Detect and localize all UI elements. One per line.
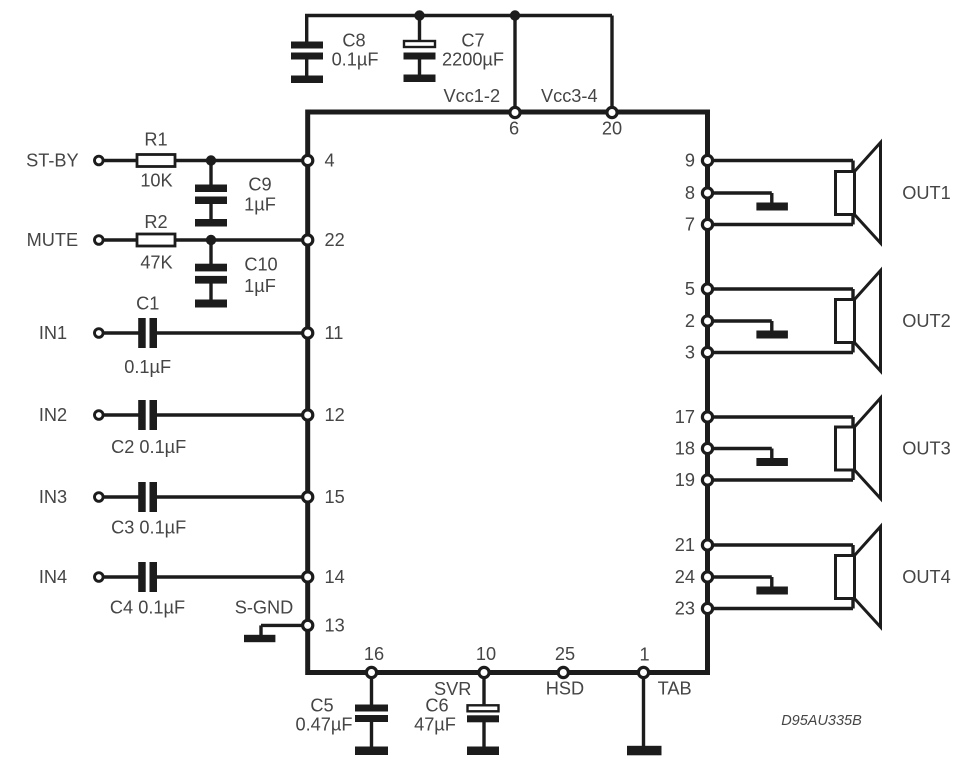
terminal IN4 — [95, 573, 104, 582]
ground (C7) — [404, 75, 436, 83]
capacitor C9 — [209, 161, 212, 186]
resistor R2 — [137, 234, 175, 246]
wire pin 17 to speaker OUT3 — [711, 415, 853, 418]
speaker OUT2 driver — [836, 300, 855, 343]
pin 8 (OUT1 gnd) — [702, 188, 712, 198]
pin 17 (OUT3+) — [702, 412, 712, 422]
wire pin 8 to ground — [711, 191, 772, 194]
ground (OUT3 return) — [756, 458, 788, 466]
wire C8 drop — [305, 16, 308, 43]
junction at Vcc1-2 branch — [510, 10, 520, 20]
wire pin 7 to speaker OUT1 — [711, 223, 853, 226]
capacitor C2 — [138, 400, 146, 430]
svg-text:IN4: IN4 — [39, 567, 67, 587]
svg-text:19: 19 — [675, 470, 695, 490]
svg-text:22: 22 — [325, 230, 345, 250]
svg-text:18: 18 — [675, 439, 695, 459]
svg-text:IN2: IN2 — [39, 405, 67, 425]
pin 21 (OUT4+) — [702, 540, 712, 550]
pin 15 (IN3) — [303, 492, 313, 502]
svg-text:R2: R2 — [144, 212, 167, 232]
svg-text:12: 12 — [325, 405, 345, 425]
ground (S-GND) — [244, 635, 275, 642]
svg-text:15: 15 — [325, 487, 345, 507]
pin 25 (HSD) — [558, 667, 568, 677]
pin 11 (IN1) — [303, 328, 313, 338]
pin 6 (Vcc1-2) — [510, 107, 520, 117]
speaker OUT3 horn — [854, 398, 881, 499]
pin 19 (OUT3-) — [702, 475, 712, 485]
wire pin 23 to speaker OUT4 — [711, 607, 853, 610]
svg-text:17: 17 — [675, 407, 695, 427]
svg-text:5: 5 — [685, 279, 695, 299]
pin 3 (OUT2-) — [702, 347, 712, 357]
svg-text:2: 2 — [685, 311, 695, 331]
svg-text:1µF: 1µF — [244, 276, 276, 296]
speaker OUT1 driver — [836, 172, 855, 215]
terminal MUTE — [95, 236, 104, 245]
wire IN3 to C3 — [103, 495, 139, 498]
pin 9 (OUT1+) — [702, 155, 712, 165]
speaker OUT1 horn — [854, 143, 881, 244]
pin 10 (SVR) — [479, 667, 489, 677]
wire ST-BY to R1 — [103, 159, 138, 162]
svg-text:2200µF: 2200µF — [442, 50, 504, 70]
capacitor C8 — [291, 42, 323, 49]
capacitor C6 (electrolytic) — [482, 677, 485, 706]
svg-text:6: 6 — [509, 119, 519, 139]
capacitor C7 (electrolytic) — [404, 41, 435, 47]
svg-text:0.1µF: 0.1µF — [332, 50, 379, 70]
svg-text:Vcc1-2: Vcc1-2 — [443, 86, 500, 106]
wire bus to pin 20 — [610, 16, 613, 113]
wire pin 24 to ground — [711, 575, 772, 578]
pin 7 (OUT1-) — [702, 219, 712, 229]
resistor R1 — [137, 155, 175, 167]
wire MUTE to R2 — [103, 238, 138, 241]
wire C4 to pin 14 — [157, 575, 305, 578]
pin 14 (IN4) — [303, 572, 313, 582]
wire R2 to pin 22 — [175, 238, 305, 241]
svg-text:C5: C5 — [310, 696, 333, 716]
wire R1 to pin 4 — [175, 159, 305, 162]
svg-text:S-GND: S-GND — [235, 598, 294, 618]
ground (C10) — [195, 300, 227, 308]
pin 18 (OUT3 gnd) — [702, 443, 712, 453]
pin 20 (Vcc3-4) — [607, 107, 617, 117]
svg-text:14: 14 — [325, 567, 345, 587]
junction at C7 top — [414, 10, 424, 20]
wire C2 to pin 12 — [157, 413, 305, 416]
wire IN2 to C2 — [103, 413, 139, 416]
svg-text:OUT3: OUT3 — [902, 439, 951, 459]
capacitor C1 — [138, 318, 146, 348]
terminal ST-BY — [95, 156, 104, 165]
svg-text:0.1µF: 0.1µF — [124, 357, 171, 377]
svg-text:21: 21 — [675, 535, 695, 555]
terminal IN3 — [95, 493, 104, 502]
pin 4 (ST-BY) — [303, 155, 313, 165]
wire pin 2 to ground — [711, 319, 772, 322]
svg-text:D95AU335B: D95AU335B — [781, 713, 862, 729]
svg-text:20: 20 — [602, 119, 622, 139]
wire IN1 to C1 — [103, 331, 139, 334]
pin 22 (MUTE) — [303, 235, 313, 245]
svg-text:8: 8 — [685, 183, 695, 203]
svg-text:7: 7 — [685, 215, 695, 235]
ground (TAB) — [627, 746, 662, 756]
svg-text:24: 24 — [675, 567, 695, 587]
pin 1 (TAB) — [638, 667, 648, 677]
svg-text:13: 13 — [325, 615, 345, 635]
wire top supply bus — [305, 14, 612, 17]
speaker OUT4 driver — [836, 556, 855, 599]
svg-text:1µF: 1µF — [244, 195, 276, 215]
svg-text:25: 25 — [555, 644, 575, 664]
svg-text:R1: R1 — [144, 130, 167, 150]
wire IN4 to C4 — [103, 575, 139, 578]
pin 24 (OUT4 gnd) — [702, 572, 712, 582]
svg-text:10: 10 — [476, 644, 496, 664]
svg-text:TAB: TAB — [658, 679, 692, 699]
svg-text:Vcc3-4: Vcc3-4 — [541, 86, 598, 106]
svg-text:C9: C9 — [248, 175, 271, 195]
wire C1 to pin 11 — [157, 331, 305, 334]
svg-text:C1: C1 — [136, 294, 159, 314]
svg-text:MUTE: MUTE — [27, 230, 79, 250]
pin 12 (IN2) — [303, 410, 313, 420]
ground (C9) — [195, 219, 227, 227]
svg-text:IN3: IN3 — [39, 487, 67, 507]
pin 13 (S-GND) — [303, 620, 313, 630]
junction R1/C9 — [206, 155, 216, 165]
ground (OUT1 return) — [756, 203, 788, 211]
svg-text:3: 3 — [685, 343, 695, 363]
wire pin 18 to ground — [711, 447, 772, 450]
speaker OUT3 driver — [836, 427, 855, 470]
ground (C8) — [291, 76, 323, 84]
capacitor C4 — [138, 562, 146, 592]
svg-text:IN1: IN1 — [39, 323, 67, 343]
pin 2 (OUT2 gnd) — [702, 316, 712, 326]
svg-text:C6: C6 — [425, 696, 448, 716]
speaker OUT2 horn — [854, 271, 881, 372]
svg-text:C10: C10 — [244, 255, 277, 275]
wire C3 to pin 15 — [157, 495, 305, 498]
terminal IN1 — [95, 329, 104, 338]
svg-text:HSD: HSD — [546, 679, 584, 699]
svg-text:47µF: 47µF — [414, 715, 456, 735]
wire pin 19 to speaker OUT3 — [711, 478, 853, 481]
wire pin 21 to speaker OUT4 — [711, 543, 853, 546]
op-amp IC body (quad power amplifier) — [308, 112, 708, 673]
svg-text:9: 9 — [685, 151, 695, 171]
capacitor C3 — [138, 482, 146, 512]
wire pin 9 to speaker OUT1 — [711, 159, 853, 162]
svg-text:OUT2: OUT2 — [902, 311, 951, 331]
ground (OUT4 return) — [756, 587, 788, 595]
wire C7 drop — [418, 16, 421, 43]
wire pin 3 to speaker OUT2 — [711, 351, 853, 354]
ground (OUT2 return) — [756, 331, 788, 339]
svg-text:OUT1: OUT1 — [902, 183, 951, 203]
svg-text:0.47µF: 0.47µF — [296, 715, 353, 735]
svg-text:C8: C8 — [342, 31, 365, 51]
svg-text:10K: 10K — [140, 171, 172, 191]
terminal IN2 — [95, 411, 104, 420]
svg-text:OUT4: OUT4 — [902, 567, 951, 587]
pin 16 — [366, 667, 376, 677]
svg-text:C3 0.1µF: C3 0.1µF — [111, 518, 186, 538]
capacitor C10 — [209, 240, 212, 265]
ground (C5) — [355, 747, 388, 756]
wire TAB to ground — [642, 677, 645, 746]
svg-text:4: 4 — [325, 151, 335, 171]
svg-text:ST-BY: ST-BY — [26, 151, 79, 171]
svg-text:C4 0.1µF: C4 0.1µF — [110, 598, 185, 618]
svg-text:1: 1 — [640, 645, 650, 665]
svg-text:11: 11 — [325, 323, 344, 343]
pin 5 (OUT2+) — [702, 284, 712, 294]
speaker OUT4 horn — [854, 527, 881, 628]
wire pin 13 to S-GND — [261, 624, 305, 627]
svg-text:C2 0.1µF: C2 0.1µF — [111, 437, 186, 457]
svg-text:16: 16 — [364, 644, 384, 664]
wire pin 5 to speaker OUT2 — [711, 287, 853, 290]
svg-text:C7: C7 — [461, 31, 484, 51]
capacitor C5 — [370, 677, 373, 705]
svg-text:23: 23 — [675, 599, 695, 619]
svg-text:47K: 47K — [140, 253, 172, 273]
pin 23 (OUT4-) — [702, 603, 712, 613]
junction R2/C10 — [206, 235, 216, 245]
ground (C6) — [467, 747, 499, 756]
wire bus to pin 6 — [513, 16, 516, 113]
